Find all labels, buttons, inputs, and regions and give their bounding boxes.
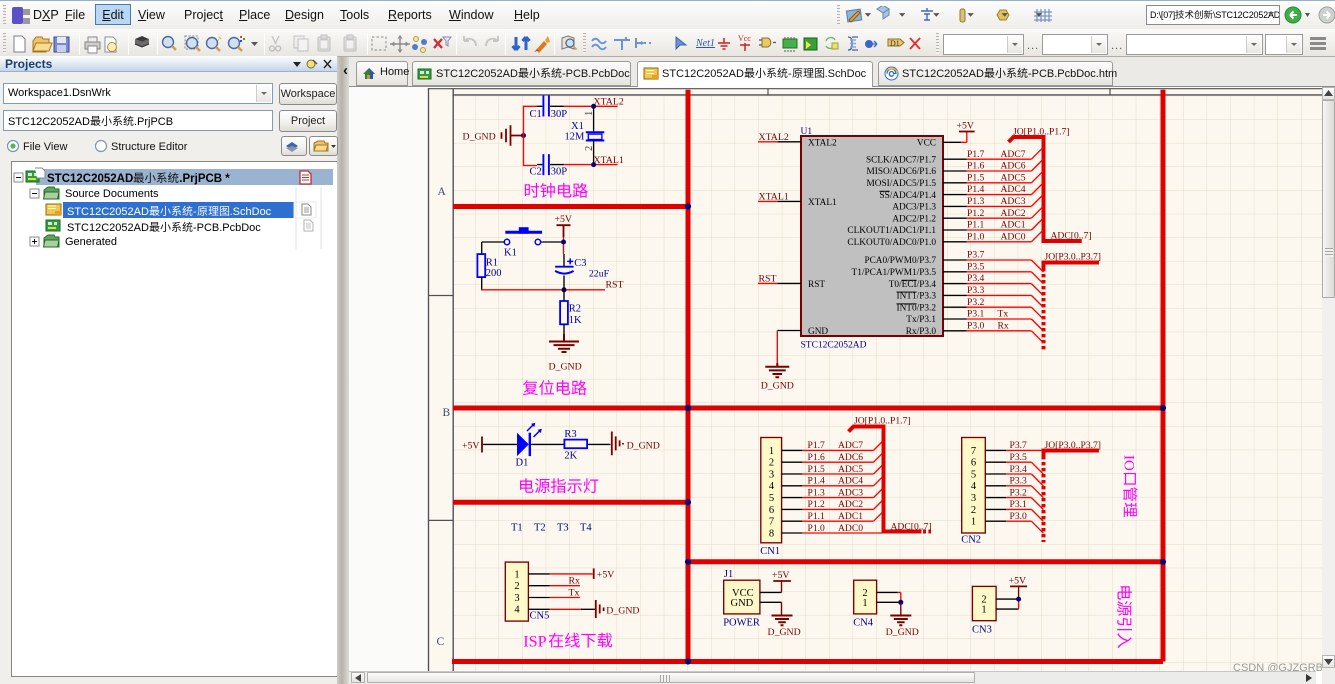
svg-text:D_GND: D_GND (606, 605, 639, 616)
connector CN4 (853, 580, 876, 628)
node: junction RST/C3/R2 (562, 287, 567, 292)
svg-text:4: 4 (769, 481, 775, 492)
svg-text:XTAL2: XTAL2 (808, 139, 837, 149)
svg-text:T1/PCA1/PWM1/P3.5: T1/PCA1/PWM1/P3.5 (852, 268, 937, 278)
wire: section divider horizontal middle full (453, 406, 1163, 411)
wire crystal top lead (593, 106, 595, 132)
svg-text:6: 6 (769, 505, 774, 516)
svg-text:P3.4: P3.4 (967, 273, 985, 284)
svg-text:+5V: +5V (555, 214, 573, 225)
svg-text:C1: C1 (530, 109, 542, 120)
wire crystal bottom lead (593, 141, 595, 165)
pins P3.7-P3.0 (943, 260, 967, 331)
svg-text:ADC4: ADC4 (1001, 184, 1026, 195)
svg-text:1: 1 (514, 569, 519, 580)
svg-text:ADC6: ADC6 (838, 452, 863, 463)
resistor R2 1K (560, 301, 582, 326)
wires P3 nets (967, 260, 1032, 331)
svg-text:CLKOUT0/ADC0/P1.0: CLKOUT0/ADC0/P1.0 (847, 238, 936, 248)
svg-text:D_GND: D_GND (549, 361, 582, 372)
wire net XTAL2 (758, 141, 777, 143)
junction on divider (1160, 405, 1166, 411)
svg-text:POWER: POWER (723, 618, 760, 629)
svg-text:1: 1 (769, 446, 774, 457)
svg-text:U1: U1 (801, 127, 813, 137)
svg-text:R2: R2 (569, 303, 581, 314)
svg-text:P1.3: P1.3 (967, 196, 985, 207)
svg-text:3: 3 (514, 593, 519, 604)
capacitor C3 22uF (polarized) (555, 254, 609, 290)
pin GND (777, 330, 801, 332)
svg-text:CN5: CN5 (530, 611, 550, 622)
wire: section divider horizontal bottom (452, 659, 1163, 664)
svg-text:P1.3: P1.3 (808, 487, 826, 498)
wire Tx (550, 597, 581, 599)
power port +5V (ISP) (593, 568, 595, 579)
switch K1 (504, 227, 542, 258)
section title: clock (525, 183, 588, 198)
section title: IO management (vertical, rotated) (1121, 455, 1138, 517)
svg-text:P1.1: P1.1 (967, 220, 985, 231)
wire red clock left loop (524, 106, 538, 165)
svg-text:ISP: ISP (523, 632, 546, 650)
svg-text:30P: 30P (551, 109, 568, 120)
section title: LED (520, 478, 598, 493)
svg-text:XTAL2: XTAL2 (759, 132, 789, 143)
bus entries CN2 (1031, 462, 1043, 533)
svg-text:1: 1 (981, 605, 986, 616)
svg-text:P1.6: P1.6 (967, 161, 985, 172)
wire XTAL2 (564, 105, 618, 107)
svg-text:P3.7: P3.7 (967, 250, 985, 261)
svg-text:T1: T1 (511, 522, 523, 533)
wire +5V to K1/C3 (563, 237, 565, 254)
wire CN3.1 up (1018, 599, 1020, 609)
svg-text:P1.2: P1.2 (967, 208, 985, 219)
bus JO[P1.0..P1.7] (MCU) (1009, 137, 1082, 241)
svg-text:J1: J1 (724, 569, 733, 580)
svg-text:D_GND: D_GND (463, 132, 496, 143)
svg-text:MISO/ADC6/P1.6: MISO/ADC6/P1.6 (867, 167, 937, 177)
pins P1.7-P1.0 (943, 159, 967, 242)
svg-text:C3: C3 (574, 258, 586, 269)
svg-text:T3: T3 (557, 522, 569, 533)
svg-text:5: 5 (971, 469, 976, 480)
pin XTAL1 (777, 200, 801, 202)
wire K1 left (482, 242, 505, 254)
svg-text:INT1/P3.3: INT1/P3.3 (896, 292, 936, 302)
svg-text:P1.5: P1.5 (967, 172, 985, 183)
wire net RST (758, 282, 777, 284)
svg-text:C2: C2 (530, 166, 542, 177)
bus entries CN1 (874, 440, 884, 521)
junction on divider (685, 405, 691, 411)
wire R2 bottom (563, 324, 565, 334)
CN1 wires (802, 450, 882, 533)
wire R3 to gnd (587, 443, 610, 445)
svg-text:1: 1 (862, 598, 867, 609)
net labels P1.x / ADCx (967, 149, 1026, 243)
power port D_GND (LED) (612, 432, 623, 456)
LED D1 (516, 423, 542, 469)
svg-text:22uF: 22uF (589, 269, 610, 280)
svg-text:+5V: +5V (957, 121, 975, 132)
net labels P3.x (967, 250, 1009, 332)
svg-text:Tx: Tx (998, 309, 1009, 320)
wire: section divider vertical x=1163 (1161, 90, 1166, 662)
svg-text:P1.2: P1.2 (808, 499, 826, 510)
svg-text:ADC5: ADC5 (1001, 172, 1026, 183)
svg-text:+5V: +5V (462, 440, 480, 451)
wire +5V to D1 (483, 443, 517, 445)
CN3 pin leads (996, 599, 1019, 609)
svg-text:3: 3 (769, 469, 774, 480)
svg-text:Net1: Net1 (695, 38, 715, 49)
svg-text:2: 2 (769, 458, 774, 469)
svg-text:7: 7 (971, 446, 976, 457)
svg-text:Rx: Rx (569, 576, 581, 587)
CN2 wires (1006, 450, 1044, 521)
CN4 pin leads (877, 592, 901, 602)
svg-text:XTAL1: XTAL1 (808, 198, 837, 208)
svg-text:CN2: CN2 (961, 535, 981, 546)
svg-text:GND: GND (731, 598, 754, 609)
svg-text:4: 4 (514, 605, 520, 616)
wires P1 nets (967, 159, 1032, 242)
svg-text:XTAL1: XTAL1 (594, 155, 624, 166)
power port D_GND (MCU) (765, 363, 789, 377)
svg-text:R1: R1 (486, 257, 498, 268)
svg-text:XTAL1: XTAL1 (759, 191, 789, 202)
junction on divider (685, 203, 691, 209)
svg-text:D_GND: D_GND (761, 380, 794, 391)
svg-text:+5V: +5V (1009, 576, 1027, 587)
svg-text:T4: T4 (580, 522, 592, 533)
svg-text:P3.4: P3.4 (1010, 464, 1028, 475)
wire XTAL1 (564, 164, 618, 166)
svg-text:P3.5: P3.5 (967, 261, 985, 272)
svg-text:8: 8 (769, 528, 774, 539)
svg-text:RST: RST (606, 280, 624, 291)
svg-text:P1.0: P1.0 (808, 523, 826, 534)
svg-text:3: 3 (971, 493, 976, 504)
svg-text:4: 4 (971, 481, 977, 492)
node: junction XTAL2 (591, 104, 596, 109)
svg-text:P3.1: P3.1 (967, 309, 985, 320)
svg-text:ADC7: ADC7 (1001, 149, 1026, 160)
connector CN2 (961, 438, 985, 546)
svg-text:JO[P3.0..P3.7]: JO[P3.0..P3.7] (1045, 440, 1102, 451)
wire GND down (776, 331, 778, 364)
svg-text:P1.6: P1.6 (808, 452, 826, 463)
op-amp/IC U1 STC12C2052AD body (801, 127, 944, 351)
wire CN5.1 to +5V (550, 573, 593, 575)
svg-text:ADC1: ADC1 (838, 511, 863, 522)
bus JO[P3.0..P3.7] (MCU) (1044, 263, 1100, 269)
svg-text:ADC6: ADC6 (1001, 161, 1026, 172)
svg-text:INT0/P3.2: INT0/P3.2 (896, 303, 936, 313)
svg-text:CN4: CN4 (853, 618, 874, 629)
wire RST net (481, 289, 605, 291)
J1 pin leads (760, 592, 782, 602)
svg-text:6: 6 (971, 458, 976, 469)
CN5 pin leads (528, 574, 549, 609)
node: junction CN4 (898, 600, 903, 605)
section title: power-in (vertical, rotated) (1117, 586, 1132, 648)
bus entries P3 (1031, 260, 1043, 343)
capacitor C1 (530, 96, 568, 121)
svg-text:ADC0: ADC0 (1001, 231, 1026, 242)
svg-text:B: B (443, 407, 451, 419)
power port +5V (VCC) (961, 132, 967, 143)
svg-text:P3.3: P3.3 (1010, 476, 1028, 487)
svg-text:P3.3: P3.3 (967, 285, 985, 296)
sheet frame border (349, 87, 1322, 672)
svg-text:30P: 30P (551, 166, 568, 177)
svg-text:XTAL2: XTAL2 (594, 96, 624, 107)
svg-text:File View: File View (23, 141, 67, 153)
svg-text:CN1: CN1 (760, 546, 780, 557)
node: junction CN3 (1016, 597, 1021, 602)
wire: section divider horizontal clock bottom (453, 204, 688, 209)
svg-text:P3.7: P3.7 (1010, 440, 1028, 451)
svg-text:D_GND: D_GND (768, 627, 801, 638)
svg-text:+5V: +5V (772, 570, 790, 581)
svg-text:P1.4: P1.4 (808, 476, 826, 487)
svg-text:5: 5 (769, 493, 774, 504)
svg-text:ADC4: ADC4 (838, 476, 863, 487)
svg-text:Tx/P3.1: Tx/P3.1 (906, 315, 936, 325)
pin RST (777, 282, 801, 284)
svg-text:X1: X1 (571, 121, 584, 132)
power port D_GND (J1) (781, 602, 783, 615)
svg-text:ADC1: ADC1 (1001, 220, 1026, 231)
power port +5V (CN3) (1010, 585, 1027, 587)
svg-text:ADC7: ADC7 (838, 440, 863, 451)
node: junction XTAL1 (591, 162, 596, 167)
junction on divider (1160, 559, 1166, 565)
svg-text:T2: T2 (534, 522, 546, 533)
CN2 pin leads (985, 450, 1006, 521)
wire R2 top (563, 290, 565, 301)
pin VCC (943, 141, 961, 143)
svg-text:ADC[0..7]: ADC[0..7] (891, 522, 932, 533)
svg-text:P1.7: P1.7 (967, 149, 985, 160)
svg-text:1: 1 (971, 517, 976, 528)
svg-text:P1.5: P1.5 (808, 464, 826, 475)
CN1 pin leads (782, 450, 803, 533)
svg-text:ADC3/P1.3: ADC3/P1.3 (892, 203, 936, 213)
wire: section divider horizontal LED bottom (453, 500, 688, 505)
bus JO[P1.0..P1.7] (CN1) (849, 427, 922, 532)
svg-text:D1: D1 (516, 457, 529, 468)
svg-text:P3.1: P3.1 (1010, 499, 1028, 510)
svg-text:RST: RST (808, 280, 825, 290)
svg-text:P3.2: P3.2 (967, 297, 985, 308)
svg-text:MOSI/ADC5/P1.5: MOSI/ADC5/P1.5 (867, 179, 937, 189)
svg-text:P3.5: P3.5 (1010, 452, 1028, 463)
svg-text:P3.0: P3.0 (967, 320, 985, 331)
connector J1 POWER (723, 569, 760, 629)
crystal X1 12M (565, 121, 605, 143)
junction on divider (685, 499, 691, 505)
pin XTAL2 (777, 141, 801, 143)
bus JO[P3.0..P3.7] (CN2) (1044, 451, 1099, 457)
svg-text:Vcc: Vcc (738, 34, 751, 43)
svg-text:JO[P1.0..P1.7]: JO[P1.0..P1.7] (854, 416, 911, 427)
wire D1 to R3 (531, 443, 565, 445)
svg-text:K1: K1 (504, 248, 517, 259)
svg-text:SS/ADC4/P1.4: SS/ADC4/P1.4 (879, 191, 936, 201)
power port D_GND (CN4) (900, 602, 902, 615)
svg-text:7: 7 (769, 517, 774, 528)
node: junction at C1/C2 left (521, 133, 526, 138)
svg-text:1: 1 (584, 111, 595, 116)
svg-text:CLKOUT1/ADC1/P1.1: CLKOUT1/ADC1/P1.1 (847, 226, 936, 236)
svg-text:2: 2 (584, 146, 595, 151)
svg-text:STC12C2052AD: STC12C2052AD (801, 341, 867, 351)
svg-text:D_GND: D_GND (886, 627, 919, 638)
wire CN5.4 to gnd (550, 608, 582, 610)
capacitor C2 (530, 154, 568, 177)
svg-text:RST: RST (759, 273, 777, 284)
connector CN3 (972, 586, 996, 635)
svg-text:1K: 1K (569, 315, 582, 326)
svg-text:P1.0: P1.0 (967, 231, 985, 242)
svg-text:P1.1: P1.1 (808, 511, 826, 522)
svg-text:12M: 12M (565, 132, 586, 143)
svg-text:CN3: CN3 (972, 624, 992, 635)
svg-text:SCLK/ADC7/P1.7: SCLK/ADC7/P1.7 (866, 155, 936, 165)
power port D_GND (reset) (549, 334, 579, 352)
resistor R3 2K (564, 429, 587, 461)
svg-text:Rx/P3.0: Rx/P3.0 (906, 327, 937, 337)
svg-text:P1.4: P1.4 (967, 184, 985, 195)
junction on divider (685, 658, 691, 664)
svg-text:ADC3: ADC3 (838, 487, 863, 498)
svg-text:Structure Editor: Structure Editor (111, 141, 188, 153)
svg-text:A: A (438, 186, 447, 198)
svg-text:2: 2 (514, 581, 519, 592)
section title: reset (523, 380, 587, 395)
power port +5V (J1) (773, 580, 791, 582)
connector CN1 (760, 438, 781, 558)
node: junction +5V/K1/C3 (561, 240, 566, 245)
svg-text:ADC2: ADC2 (838, 499, 863, 510)
svg-text:JO[P3.0..P3.7]: JO[P3.0..P3.7] (1045, 251, 1102, 262)
svg-text:VCC: VCC (917, 139, 936, 149)
svg-text:ADC2: ADC2 (1001, 208, 1026, 219)
svg-text:D_GND: D_GND (627, 440, 660, 451)
svg-text:R3: R3 (564, 429, 576, 440)
svg-text:ADC2/P1.2: ADC2/P1.2 (892, 214, 936, 224)
junction on divider (685, 559, 691, 565)
svg-text:2K: 2K (564, 450, 577, 461)
connector CN5 (505, 562, 549, 622)
svg-text:2: 2 (971, 505, 976, 516)
svg-text:T0/ECI/P3.4: T0/ECI/P3.4 (889, 280, 937, 290)
svg-text:P1.7: P1.7 (808, 440, 826, 451)
CN1 net labels (808, 440, 864, 534)
svg-text:Rx: Rx (998, 320, 1009, 331)
svg-text:P3.0: P3.0 (1010, 511, 1028, 522)
svg-text:D1: D1 (890, 39, 900, 48)
bus entries P1 (1031, 147, 1043, 242)
svg-text:ADC0: ADC0 (838, 523, 863, 534)
svg-text:GND: GND (808, 327, 828, 337)
svg-text:IO: IO (1121, 455, 1137, 471)
svg-text:ADC[0..7]: ADC[0..7] (1051, 230, 1092, 241)
wire net XTAL1 (758, 200, 777, 202)
CN2 net labels (1010, 440, 1028, 522)
svg-text:JO[P1.0..P1.7]: JO[P1.0..P1.7] (1013, 126, 1070, 137)
svg-text:C: C (437, 636, 445, 648)
wire R1 bottom (481, 277, 483, 290)
svg-text:Tx: Tx (569, 588, 580, 599)
svg-text:ADC5: ADC5 (838, 464, 863, 475)
svg-text:ADC3: ADC3 (1001, 196, 1026, 207)
resistor R1 200 (477, 254, 501, 279)
wire: section divider horizontal power top (688, 559, 1163, 564)
svg-text:+5V: +5V (597, 569, 615, 580)
svg-text:P3.2: P3.2 (1010, 487, 1028, 498)
wire CN4.2 down (898, 592, 901, 602)
power port D_GND (ISP) (596, 600, 604, 618)
svg-text:200: 200 (486, 268, 502, 279)
wire Rx (550, 585, 581, 587)
svg-text:PCA0/PWM0/P3.7: PCA0/PWM0/P3.7 (864, 256, 936, 266)
test point labels T1-T4 (511, 522, 592, 533)
wire: section divider vertical x=688 (686, 90, 691, 662)
